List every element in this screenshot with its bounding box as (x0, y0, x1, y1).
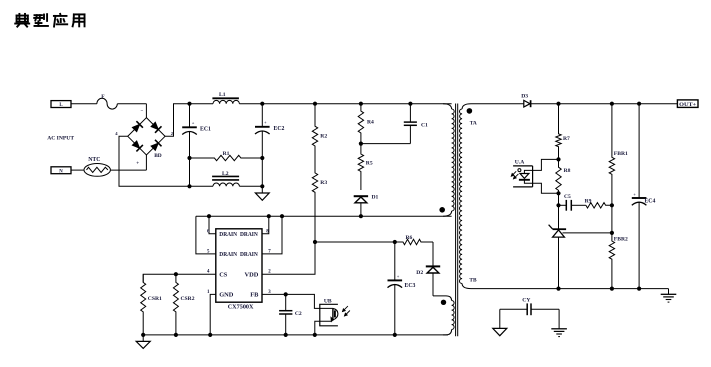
svg-text:FBR1: FBR1 (614, 151, 628, 157)
wire VDD node (315, 241, 395, 243)
secondary polarity dot (467, 108, 473, 114)
resistor R7 (556, 102, 560, 106)
svg-text:N: N (59, 169, 63, 174)
svg-text:CY: CY (522, 298, 530, 304)
UA cathode wire (524, 180, 558, 194)
svg-text:R9: R9 (585, 198, 592, 204)
svg-text:L: L (59, 103, 62, 108)
svg-text:BD: BD (154, 153, 162, 159)
light arrows into UB (342, 306, 348, 312)
title 典型应用 (15, 14, 84, 27)
optocoupler UA LED (513, 165, 533, 167)
svg-text:GND: GND (219, 292, 234, 299)
capacitor C2 (285, 294, 287, 310)
node anode (556, 157, 560, 161)
capacitor EC1 (187, 102, 191, 106)
transformer secondary winding (462, 104, 471, 109)
svg-text:C2: C2 (295, 311, 302, 317)
thermistor NTC (84, 164, 110, 177)
wire (71, 103, 97, 105)
svg-text:EC4: EC4 (644, 199, 655, 205)
earth ground secondary (661, 293, 677, 295)
svg-text:EC2: EC2 (274, 126, 285, 132)
inductor L1 (212, 97, 239, 99)
wire (110, 169, 146, 171)
svg-text:L1: L1 (219, 92, 226, 98)
svg-text:U.A: U.A (515, 159, 524, 165)
svg-text:TA: TA (470, 120, 477, 126)
bridge diode bottom-right (151, 143, 158, 150)
resistor FBR1 (610, 102, 614, 106)
svg-text:EC1: EC1 (200, 127, 211, 133)
svg-text:R4: R4 (367, 119, 374, 125)
shunt regulator TL431 (558, 205, 560, 229)
transformer primary winding (443, 104, 452, 109)
svg-text:CS: CS (219, 272, 228, 279)
svg-text:C1: C1 (421, 122, 428, 128)
diode D2 (432, 242, 434, 266)
TL431 ref wire (563, 232, 612, 234)
svg-text:CSR2: CSR2 (181, 296, 195, 302)
capacitor EC3 (393, 240, 397, 244)
svg-text:+: + (633, 192, 636, 197)
diode D1 (354, 195, 368, 197)
resistor R4 (359, 102, 363, 106)
wire (611, 205, 613, 233)
wire secondary bottom rail (471, 288, 669, 290)
svg-text:R1: R1 (223, 151, 230, 157)
svg-text:DRAIN: DRAIN (219, 251, 237, 258)
wire drain to pin5 (196, 216, 216, 254)
svg-text:AC INPUT: AC INPUT (47, 135, 74, 141)
ground CY left (493, 328, 507, 335)
svg-text:OUT+: OUT+ (679, 103, 696, 108)
wire FB pin3 (262, 294, 333, 308)
svg-text:R6: R6 (406, 235, 413, 241)
svg-text:NTC: NTC (88, 157, 100, 163)
wire bridge minus to rail (119, 136, 190, 186)
wire drain to pin6 (207, 214, 211, 218)
svg-text:D2: D2 (416, 270, 423, 276)
terminal L (51, 101, 71, 108)
resistor CSR2 (173, 274, 178, 335)
svg-text:R8: R8 (564, 168, 571, 174)
svg-text:DRAIN: DRAIN (240, 231, 258, 238)
controller IC U1 CX7500X (216, 229, 262, 302)
earth ground CY right (551, 328, 567, 330)
transformer core (455, 104, 457, 337)
wire VDD pin2 (262, 242, 315, 274)
svg-text:R2: R2 (320, 134, 327, 140)
svg-text:+: + (192, 120, 195, 125)
svg-text:EC3: EC3 (405, 283, 416, 289)
svg-text:DRAIN: DRAIN (219, 231, 237, 238)
resistor R3 (312, 160, 317, 243)
svg-text:FBR2: FBR2 (614, 237, 628, 243)
svg-text:CX7500X: CX7500X (228, 303, 254, 310)
svg-text:D1: D1 (372, 194, 379, 200)
resistor FBR2 (609, 233, 614, 289)
diode D3 (524, 100, 530, 107)
wire cathode node down (558, 193, 560, 205)
svg-text:VDD: VDD (245, 272, 259, 279)
svg-text:FB: FB (250, 292, 259, 299)
svg-text:UB: UB (324, 298, 332, 304)
svg-text:+: + (264, 120, 267, 125)
bridge diode bottom-left (132, 141, 139, 148)
wire GND pin1 (210, 294, 216, 335)
light arrows out of UA (511, 171, 516, 176)
ground primary (255, 193, 269, 200)
svg-text:R3: R3 (320, 180, 327, 186)
aux polarity dot (441, 300, 446, 305)
bridge diode top-right (151, 122, 158, 129)
resistor R2 (313, 102, 317, 106)
wire drain to pin8 (267, 214, 271, 218)
terminal OUT+ (677, 100, 698, 108)
svg-text:+: + (397, 274, 400, 279)
wire (558, 309, 560, 329)
capacitor EC2 (260, 102, 264, 106)
resistor R8 (556, 159, 561, 193)
resistor R9 (586, 203, 612, 208)
transformer auxiliary winding (433, 296, 452, 301)
resistor R6 (395, 239, 433, 244)
wire (71, 169, 84, 171)
inductor L2 (212, 175, 239, 177)
wire drain rail (196, 215, 452, 217)
resistor CSR1 (141, 274, 146, 335)
wire secondary top rail (471, 103, 524, 105)
resistor R1 (190, 155, 263, 160)
capacitor EC4 (637, 102, 641, 106)
wire top rail (190, 103, 214, 105)
fuse F (97, 98, 117, 109)
svg-text:L2: L2 (222, 171, 229, 177)
capacitor C1 (408, 102, 412, 106)
capacitor C5 (559, 204, 567, 206)
svg-text:R7: R7 (563, 136, 570, 142)
bridge rectifier BD (128, 118, 165, 155)
optocoupler UB phototransistor (320, 304, 338, 326)
terminal N (51, 167, 71, 174)
svg-text:CSR1: CSR1 (148, 296, 162, 302)
svg-text:+: + (136, 162, 139, 167)
svg-text:R5: R5 (366, 160, 373, 166)
wire CS pin4 (143, 274, 216, 282)
svg-text:C5: C5 (564, 194, 571, 200)
svg-text:TB: TB (469, 277, 477, 283)
svg-text:D3: D3 (521, 94, 528, 100)
resistor R5 (358, 144, 363, 190)
wire drain to pin7 (280, 214, 284, 218)
svg-text:DRAIN: DRAIN (240, 251, 258, 258)
bridge diode top-left (132, 124, 139, 131)
capacitor CY (500, 308, 527, 310)
svg-text:−: − (141, 109, 144, 114)
wire bridge plus to top rail (165, 104, 189, 137)
ground IC (142, 335, 144, 342)
primary polarity dot (439, 207, 445, 213)
UA anode wire (524, 159, 558, 173)
wire bottom rail (143, 334, 448, 336)
wire clamp node (361, 143, 411, 145)
wire (499, 309, 501, 328)
wire (117, 103, 146, 105)
